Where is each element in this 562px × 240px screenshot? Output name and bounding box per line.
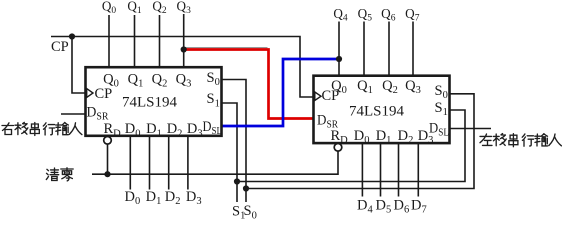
svg-text:D3: D3 <box>186 189 202 207</box>
svg-text:Q0: Q0 <box>102 0 117 16</box>
svg-text:S0: S0 <box>244 203 257 219</box>
svg-text:Q1: Q1 <box>127 0 142 16</box>
svg-text:Q6: Q6 <box>381 6 396 24</box>
svg-text:D5: D5 <box>376 198 392 216</box>
svg-text:D4: D4 <box>357 198 373 216</box>
svg-text:74LS194: 74LS194 <box>122 95 178 111</box>
svg-text:74LS194: 74LS194 <box>349 104 405 120</box>
svg-text:D0: D0 <box>125 189 141 207</box>
svg-text:Q4: Q4 <box>333 6 348 24</box>
svg-text:CP: CP <box>95 86 113 102</box>
svg-text:D1: D1 <box>146 189 162 207</box>
svg-text:D6: D6 <box>394 198 410 216</box>
svg-text:Q2: Q2 <box>152 0 167 16</box>
svg-text:Q3: Q3 <box>177 0 192 16</box>
svg-text:CP: CP <box>51 39 69 55</box>
svg-text:Q5: Q5 <box>358 6 373 24</box>
svg-text:Q7: Q7 <box>405 6 420 24</box>
svg-text:D7: D7 <box>411 198 427 216</box>
svg-text:D2: D2 <box>165 189 181 207</box>
